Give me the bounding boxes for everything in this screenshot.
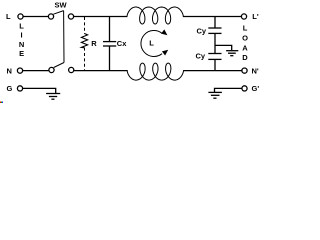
svg-text:I: I bbox=[21, 30, 23, 39]
svg-text:G: G bbox=[7, 84, 13, 93]
choke core circular arrow bbox=[141, 29, 168, 56]
capacitor Cy (bottom) plates bbox=[208, 54, 221, 60]
LOAD label (vertical) bbox=[242, 24, 248, 62]
svg-text:D: D bbox=[242, 53, 248, 62]
wire choke to L' (top rail) bbox=[183, 16, 242, 18]
svg-text:G': G' bbox=[252, 84, 260, 93]
svg-text:O: O bbox=[242, 34, 248, 43]
terminal N bbox=[7, 66, 23, 75]
LINE label (vertical) bbox=[19, 21, 24, 58]
wire choke to N' (bottom rail) bbox=[183, 70, 242, 72]
capacitor Cx bottom lead bbox=[109, 46, 111, 71]
terminal G' bbox=[242, 84, 259, 93]
switch SW pole 2 lever bbox=[54, 63, 64, 68]
ground (left, G) bbox=[46, 94, 60, 100]
svg-text:L: L bbox=[6, 12, 11, 21]
wire L to switch bbox=[23, 16, 48, 18]
ground (Cy midpoint) bbox=[226, 51, 238, 56]
svg-text:L: L bbox=[243, 24, 248, 33]
svg-text:L': L' bbox=[252, 12, 259, 21]
svg-text:N: N bbox=[7, 66, 12, 75]
choke top winding bbox=[127, 7, 183, 24]
corner colour pixels bbox=[0, 102, 3, 104]
capacitor Cx top lead bbox=[109, 17, 111, 42]
svg-text:E: E bbox=[19, 49, 24, 58]
wire G to ground bbox=[23, 88, 56, 93]
capacitor Cx plates bbox=[103, 42, 116, 46]
switch SW gang link bbox=[63, 11, 65, 63]
svg-text:R: R bbox=[91, 39, 97, 48]
resistor R zigzag bbox=[81, 34, 87, 48]
terminal N' bbox=[242, 66, 259, 75]
wire midpoint to ground bbox=[215, 45, 232, 50]
resistor R dashed bottom lead bbox=[84, 48, 86, 70]
svg-text:L: L bbox=[19, 21, 24, 30]
wire Cy midpoint bbox=[214, 33, 216, 53]
switch SW pole 1 lever bbox=[53, 11, 63, 15]
terminal L bbox=[6, 12, 23, 21]
svg-text:A: A bbox=[242, 43, 248, 52]
svg-text:Cy: Cy bbox=[196, 51, 206, 60]
wire G' to ground bbox=[215, 88, 242, 92]
resistor R dashed top lead bbox=[84, 17, 86, 34]
svg-text:N: N bbox=[19, 40, 24, 49]
svg-text:SW: SW bbox=[55, 1, 68, 10]
svg-text:Cx: Cx bbox=[117, 39, 127, 48]
capacitor Cy bottom lead bbox=[214, 59, 216, 70]
svg-text:Cy: Cy bbox=[197, 27, 207, 36]
svg-text:L: L bbox=[149, 39, 154, 48]
wire N to switch bbox=[23, 70, 49, 72]
svg-text:N': N' bbox=[252, 66, 259, 75]
ground (right, G') bbox=[208, 92, 222, 98]
wire switch to choke (bottom rail) bbox=[74, 70, 128, 72]
terminal G bbox=[7, 84, 23, 93]
capacitor Cy top lead bbox=[214, 17, 216, 29]
capacitor Cy (top) plates bbox=[208, 28, 221, 33]
switch SW pole 2 contacts bbox=[49, 67, 74, 72]
choke bottom winding bbox=[127, 63, 184, 80]
switch SW pole 1 contacts bbox=[48, 14, 73, 19]
terminal L' bbox=[241, 12, 258, 21]
wire switch to choke (top rail) bbox=[74, 16, 128, 18]
